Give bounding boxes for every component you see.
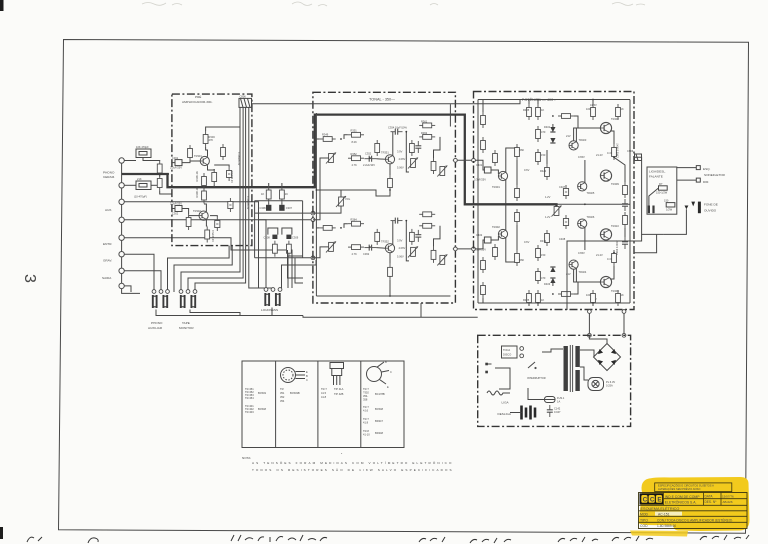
wire B+ top rail (478, 99, 630, 101)
resistor R374 top a (419, 212, 435, 217)
wire cluster bottom rail (255, 257, 313, 259)
svg-text:47K: 47K (209, 138, 214, 142)
potentiometer P358 treble B (437, 254, 447, 265)
capacitor C362 series B (364, 245, 376, 251)
resistor R316 (280, 187, 285, 203)
resistor R372 (431, 247, 436, 263)
capacitor C401 input (474, 163, 498, 182)
wire stub tonal bottom to ground rail (420, 303, 422, 317)
resistor R318 (287, 241, 292, 257)
capacitor C302 input 2 (170, 202, 189, 216)
svg-text:TR302: TR302 (193, 209, 201, 213)
svg-text:D403: D403 (544, 282, 551, 286)
svg-text:VOL: VOL (345, 197, 351, 201)
bias potentiometer P401 (552, 206, 562, 217)
wire emitter 2 (205, 220, 208, 226)
wire output R (634, 234, 657, 252)
wire supply bottom (528, 388, 545, 400)
resistor R312 emitter 2 (205, 227, 210, 243)
svg-text:DESLIGA: DESLIGA (498, 412, 512, 416)
resistor R361 top a (419, 123, 435, 128)
svg-text:47uF/6.3V: 47uF/6.3V (211, 230, 215, 242)
capacitor C352 series (364, 156, 376, 162)
wire bottom rail (478, 302, 630, 304)
svg-text:R352: R352 (351, 152, 358, 156)
wire connector bus b (242, 107, 244, 245)
jack J6 ENTR R (119, 252, 124, 257)
resistor R315 (266, 187, 271, 203)
wire cluster right drop (302, 201, 304, 258)
wire to predriver B (574, 269, 578, 294)
svg-text:AC-151: AC-151 (658, 512, 670, 516)
resistor R423 (515, 250, 520, 266)
wire TR405 (584, 160, 586, 183)
svg-text:41.8: 41.8 (321, 395, 327, 399)
resistor R427 (536, 268, 541, 284)
svg-text:TR402: TR402 (492, 225, 500, 229)
svg-text:TR-303: TR-303 (245, 410, 254, 414)
svg-text:AUX.: AUX. (105, 208, 112, 212)
title table frame (639, 493, 748, 529)
svg-text:DATA: DATA (705, 495, 714, 499)
capacitor C304 emitter bypass 2 (215, 217, 220, 231)
transistor TR402 (498, 229, 507, 238)
svg-text:C309: C309 (292, 236, 299, 240)
svg-text:COD: COD (640, 524, 648, 528)
svg-text:BD348: BD348 (375, 431, 383, 435)
resistor R369 emitter B (388, 264, 393, 280)
wire emitter network (208, 165, 215, 170)
half row line (664, 498, 748, 500)
resistor R375 top b (419, 223, 435, 228)
pencil mark 2 (292, 2, 327, 6)
svg-text:3.9V: 3.9V (397, 238, 403, 242)
jack J7 GRAV (119, 268, 124, 273)
svg-text:150: 150 (541, 153, 546, 157)
svg-text:41.8: 41.8 (363, 421, 369, 425)
column sep logo (663, 493, 665, 506)
svg-text:TR301: TR301 (194, 154, 202, 158)
wire base node (376, 158, 385, 161)
wire B+ rail tonal (252, 100, 520, 104)
wire TR403 (576, 128, 600, 142)
svg-text:C307: C307 (286, 206, 293, 210)
svg-text:TAPE: TAPE (182, 321, 190, 325)
transistor TR409 power (600, 170, 611, 181)
input ground bus wire (122, 161, 140, 294)
wire jack to box (663, 209, 686, 234)
extra harness verticals (295, 258, 303, 283)
svg-text:21K: 21K (137, 177, 142, 181)
switch S3 LOUDNESS (265, 293, 279, 306)
dashed block border TONAL-350 (313, 92, 456, 303)
svg-text:CERAM.: CERAM. (103, 175, 115, 179)
wire cluster rail lower (255, 212, 313, 214)
resistor R425 (527, 290, 532, 306)
svg-text:TOCA: TOCA (503, 348, 510, 352)
resistor R411 (591, 104, 596, 120)
wire mains to switch (499, 368, 510, 389)
resistor R417 zobel (623, 182, 628, 198)
svg-text:3.9V: 3.9V (397, 150, 403, 154)
wire r425 (528, 303, 530, 306)
wire connector bus d (248, 107, 250, 245)
svg-text:100: 100 (586, 107, 591, 111)
svg-text:C402: C402 (476, 233, 483, 237)
svg-text:C302: C302 (172, 212, 179, 216)
svg-text:TR405: TR405 (587, 191, 595, 195)
svg-text:56K: 56K (520, 148, 525, 152)
wire tonal out left channel (453, 159, 480, 161)
svg-text:TR352: TR352 (381, 239, 389, 243)
junction dots (167, 99, 615, 304)
wire zobel B (624, 228, 626, 237)
svg-text:AUXILIAR: AUXILIAR (148, 326, 163, 330)
wire TR401 collector (506, 146, 517, 172)
svg-text:TR-?: TR-? (363, 405, 369, 409)
potentiometer P352 bass cut A (408, 158, 418, 169)
capacitor C904 zobel B (622, 237, 628, 249)
capacitor C308 (264, 235, 278, 240)
volume potentiometer P353 (336, 196, 346, 207)
wire B+ feed left (588, 310, 590, 336)
scribble 7 (612, 536, 653, 541)
capacitor C303 emitter bypass (227, 167, 232, 181)
svg-text:0.6V: 0.6V (524, 168, 530, 172)
dashed block border POTENCIA-400 (474, 92, 635, 310)
svg-text:R432: R432 (540, 239, 547, 243)
resistor R4 series phono (157, 175, 162, 191)
wire mid components (546, 150, 548, 164)
svg-text:DES. Nº: DES. Nº (705, 500, 718, 504)
svg-text:R422: R422 (540, 169, 547, 173)
svg-text:0.6V: 0.6V (524, 240, 530, 244)
svg-text:NOTA:: NOTA: (242, 456, 251, 460)
svg-text:PHONO: PHONO (151, 321, 163, 325)
transistor TR302 (199, 211, 208, 220)
wire bridge outputs (589, 335, 607, 343)
wire cluster to tonal (258, 219, 313, 221)
transistor TR401 (498, 171, 507, 180)
svg-text:351: 351 (280, 391, 285, 395)
wire diode chain (552, 124, 554, 127)
col2 TO-92 drawing (281, 368, 309, 383)
wire r406 chain (537, 100, 539, 105)
pilot lamp PL1 (588, 378, 615, 391)
svg-text:3.3uF/25V: 3.3uF/25V (474, 248, 486, 252)
resistor R428 (536, 245, 541, 261)
svg-text:1K: 1K (541, 298, 544, 302)
resistor R402 (493, 244, 498, 260)
junction circle a (588, 310, 592, 314)
svg-text:21V: 21V (566, 134, 571, 138)
resistor R362 top b (419, 135, 435, 140)
svg-text:TR406: TR406 (587, 215, 595, 219)
junction at tonal edge b (311, 218, 315, 222)
svg-text:C806: C806 (240, 95, 247, 99)
resistor R433 left column a (481, 112, 486, 128)
svg-text:470uF/6.3V: 470uF/6.3V (246, 196, 250, 210)
wire R3 to preamp (151, 160, 160, 163)
svg-text:C308: C308 (264, 236, 271, 240)
wire inside box (649, 188, 659, 206)
harness wire from preamp output 2 (174, 246, 232, 292)
table column line 3 (360, 361, 362, 448)
svg-text:470: 470 (541, 130, 546, 134)
svg-text:R349: R349 (322, 133, 329, 137)
wire collector loop B (392, 221, 394, 245)
resistor R365 series B (348, 245, 364, 250)
fuse FUS-1 (545, 396, 565, 404)
harness wire from preamp connector a (181, 246, 240, 292)
emitter resistor R413 (612, 144, 617, 160)
resistor R301 base bias (188, 145, 193, 161)
resistor R434 left column b (481, 137, 486, 153)
wire cluster left drop (254, 201, 256, 258)
svg-text:C306: C306 (260, 206, 267, 210)
svg-text:SAIDA: SAIDA (102, 276, 112, 280)
wire right rail (629, 100, 631, 304)
jack J8 SAIDA (119, 283, 124, 288)
svg-text:TR409: TR409 (611, 182, 619, 186)
svg-text:354-: 354- (363, 394, 368, 398)
wire zobel (614, 157, 625, 182)
svg-text:1K: 1K (541, 108, 544, 112)
svg-text:470uF/6.3V: 470uF/6.3V (237, 152, 241, 166)
connector C806 (239, 95, 252, 108)
svg-text:LIGA: LIGA (502, 401, 510, 405)
transistor TR410 power (600, 229, 611, 240)
svg-text:(10-470pF): (10-470pF) (134, 195, 147, 199)
svg-text:E: E (306, 370, 308, 374)
svg-text:FALANTE: FALANTE (649, 174, 663, 178)
svg-text:150: 150 (541, 253, 546, 257)
capacitor C356 (415, 141, 421, 153)
table frame (242, 361, 404, 448)
resistor R307 feedback (221, 144, 226, 160)
svg-text:21.2V: 21.2V (596, 153, 603, 157)
svg-text:1A: 1A (557, 400, 560, 404)
resistor R351 (348, 132, 364, 137)
svg-text:TR-?: TR-? (321, 387, 327, 391)
svg-text:PL 6.3V: PL 6.3V (606, 380, 615, 384)
harness wire saida (124, 286, 131, 292)
table column line 2 (317, 361, 319, 448)
wire loop hook 1 (268, 228, 278, 235)
transistor TR406 VAS (578, 219, 587, 228)
junction circle b (622, 310, 626, 314)
harness wire grav (124, 271, 161, 292)
svg-text:C354 10uF/10%: C354 10uF/10% (388, 126, 407, 130)
svg-text:R351: R351 (351, 129, 358, 133)
wire mid rail (557, 203, 631, 205)
scribble 5 (470, 538, 511, 543)
svg-text:0.65V: 0.65V (578, 155, 585, 159)
transformer T1 secondary winding (575, 346, 579, 367)
junction tonal out R edge (454, 247, 458, 251)
wire TR302 base (189, 215, 199, 217)
highlighter streak below (630, 531, 688, 537)
transformer T1 primary winding (564, 346, 568, 391)
wire emitter down B (389, 253, 391, 264)
resistor R357 (410, 140, 415, 156)
capacitor C406 mid (563, 215, 568, 229)
svg-text:41-10: 41-10 (363, 433, 370, 437)
transformer core (569, 345, 571, 392)
wire output L to switch box (634, 157, 663, 234)
resistor R350 input B (320, 226, 336, 231)
resistor R403 (515, 144, 520, 160)
wire down from supply to jack ground (567, 234, 642, 310)
wire left rail (477, 100, 479, 304)
wire emitter to mid (316, 190, 390, 196)
svg-text:C407: C407 (559, 185, 566, 189)
resistor R353 base pullup (375, 140, 380, 156)
capacitor C364 collector feedback B (391, 218, 403, 224)
wire tone network B b (434, 226, 441, 247)
wire input B (480, 240, 484, 249)
svg-text:0.25A: 0.25A (606, 384, 613, 388)
wire input A (480, 160, 484, 170)
transistor TR405 VAS (578, 182, 587, 191)
transformer T1 secondary winding 2 (575, 370, 579, 391)
wire tap a from bus (268, 183, 270, 187)
terminal toca disco b (520, 354, 524, 358)
switch contacts falante (648, 206, 650, 214)
wire r411 (592, 100, 594, 105)
wire r431 (592, 303, 594, 306)
svg-text:0.47: 0.47 (607, 257, 613, 261)
junction at tonal edge a (311, 211, 315, 215)
diode D401 (550, 127, 555, 132)
svg-text:R362: R362 (421, 131, 428, 135)
svg-text:R306-1K: R306-1K (195, 171, 199, 182)
headphone jack FONE DE OUVIDO (698, 202, 701, 214)
resistor R440 inside box (656, 182, 668, 195)
svg-text:352: 352 (280, 395, 285, 399)
svg-text:LOUDNESS: LOUDNESS (261, 308, 278, 312)
svg-text:C401: C401 (476, 163, 483, 167)
resistor R366 base pullup B (375, 229, 380, 245)
wire to ESQ terminal (677, 167, 697, 169)
potentiometer P355 bass B (326, 241, 336, 252)
wire switch to transformer (542, 349, 563, 352)
harness wire from preamp output 1 (168, 246, 230, 292)
svg-text:5.06V: 5.06V (397, 166, 404, 170)
terminal toca disco a (520, 347, 524, 351)
svg-text:B: B (306, 374, 308, 378)
jack contact triangle 1 (685, 206, 689, 210)
svg-text:41.5: 41.5 (321, 391, 327, 395)
extra harness vertical 2 (288, 250, 304, 278)
svg-text:0.47: 0.47 (607, 151, 613, 155)
scribble 1 (27, 537, 42, 542)
scribble 2 (88, 538, 98, 543)
svg-text:TR410: TR410 (611, 224, 619, 228)
svg-text:E: E (387, 385, 389, 389)
transistor TR403 predriver (569, 141, 578, 150)
capacitor C402 input (474, 233, 498, 252)
dashed block border power supply (478, 335, 631, 426)
svg-text:TR404: TR404 (579, 270, 587, 274)
harness wire from preamp connector c (195, 246, 246, 292)
resistor R3 series phono (157, 161, 162, 177)
svg-text:TR-354: TR-354 (245, 396, 254, 400)
svg-text:1K: 1K (621, 293, 624, 297)
junction potencia in L edge (472, 158, 476, 162)
svg-text:56K: 56K (520, 258, 525, 262)
harness wire loudness to tonal (282, 260, 317, 288)
svg-text:TR-8: TR-8 (363, 429, 369, 433)
row line 4 (639, 521, 748, 523)
wire tone network B a (406, 221, 409, 261)
harness wire from preamp connector b (188, 246, 243, 292)
wire loop hook 2 (282, 228, 292, 235)
harness wire aux R (124, 220, 266, 288)
svg-text:150: 150 (664, 199, 669, 203)
stage 2 : resistor R308 (202, 188, 207, 204)
wire TR401 emitter (505, 180, 507, 204)
RC network input filter 1 (resistor R1 + capacitor C1) (124, 145, 151, 161)
wire loudness common down (271, 308, 273, 316)
svg-text:4.7K: 4.7K (352, 163, 358, 167)
wire tape monitor common (190, 310, 240, 316)
pencil mark 3 (430, 3, 645, 6)
svg-text:ELETRÔNICOS S.A.: ELETRÔNICOS S.A. (665, 499, 697, 504)
wire ground rail to supply (303, 316, 478, 318)
potencia channel A (474, 100, 628, 212)
capacitor C305 coupling (228, 198, 233, 212)
tonal channel A (313, 119, 447, 219)
svg-text:AMPLIFICADOR-300-: AMPLIFICADOR-300- (182, 100, 212, 104)
svg-text:C: C (306, 378, 308, 382)
transistor TR407 power (600, 122, 611, 133)
wire lamp (580, 367, 588, 380)
resistor R359 (431, 158, 436, 174)
wire TR402 emitter (505, 204, 507, 230)
svg-text:MOD: MOD (640, 512, 648, 516)
wire emitter down (389, 164, 391, 175)
CCE logo (640, 493, 664, 504)
wire TR406 (584, 227, 586, 250)
jack J5 ENTR L (119, 235, 124, 240)
capacitor C405 mid (563, 185, 568, 199)
col3 TO-126 drawing (330, 363, 344, 386)
scribble 8 (700, 535, 749, 540)
resistor R305 emitter (212, 169, 217, 185)
resistor R424 (515, 209, 520, 225)
junction at tonal edge c (311, 256, 315, 260)
wire TR301 base (190, 160, 200, 162)
transistor TR352 (385, 244, 394, 253)
capacitor C354 collector feedback (391, 129, 403, 135)
svg-text:C904 0.0047: C904 0.0047 (615, 240, 619, 255)
resistor R306 (202, 173, 207, 189)
svg-text:4.16: 4.16 (363, 409, 369, 413)
wire B+ feed right (623, 310, 625, 336)
potencia scattered labels (520, 107, 624, 302)
svg-text:E: E (657, 497, 662, 504)
wire left column a (482, 100, 484, 113)
wire right inner rail (449, 104, 451, 126)
harness wire from preamp connector d (249, 246, 274, 288)
capacitor C366 (415, 230, 421, 242)
diode D403 (550, 278, 555, 283)
jack J2 PHONO R (119, 183, 124, 188)
terminal DIR (696, 178, 700, 182)
svg-text:TIP 42B: TIP 42B (334, 392, 344, 396)
capacitor C307 electrolytic (279, 203, 292, 211)
